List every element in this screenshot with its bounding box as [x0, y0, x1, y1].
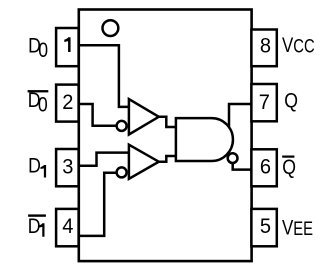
svg-text:7: 7 [259, 90, 270, 114]
wire /D1: pin 4 to buffer B inverting bubble [79, 173, 117, 236]
svg-text:8: 8 [260, 34, 271, 58]
buffer B triangle [129, 145, 159, 179]
wire /Q: gate bubble to pin 6 [233, 163, 252, 169]
wire D0: pin 1 to buffer A noninverting input [79, 45, 129, 107]
svg-text:6: 6 [260, 155, 271, 179]
wire D1: pin 3 to buffer B noninverting input [79, 153, 129, 166]
label /Q (pin 6) with overline [282, 156, 294, 158]
pin 6 box [251, 149, 276, 186]
pin 7 box [251, 84, 276, 121]
pin 2 box [56, 85, 79, 122]
svg-text:Q: Q [284, 90, 298, 113]
svg-text:3: 3 [62, 155, 73, 179]
pin 1 number [64, 37, 70, 52]
buffer A triangle [129, 99, 159, 134]
gate G1 AND shape [176, 118, 233, 161]
wire buffer A output to gate input 1 [159, 117, 176, 127]
svg-text:VCC: VCC [282, 33, 315, 58]
gate G1 complementary output bubble [228, 153, 238, 163]
svg-text:Q: Q [282, 157, 296, 180]
pin 5 box [251, 209, 276, 246]
buffer A input bubble [117, 121, 127, 131]
pin 8 box [251, 30, 276, 67]
IC body U1 [79, 10, 252, 262]
pin 1 indicator circle [103, 20, 119, 36]
label /D1 (pin 4) with overline [28, 214, 46, 216]
label /D0 (pin 2) with overline [28, 90, 49, 92]
svg-text:D: D [28, 216, 41, 239]
svg-text:2: 2 [62, 90, 73, 114]
buffer B input bubble [117, 167, 127, 177]
svg-text:D: D [28, 155, 41, 178]
pin 4 box [56, 209, 79, 246]
wire /D0: pin 2 to buffer A inverting bubble [79, 104, 117, 126]
wire Q: gate true output to pin 7 [229, 104, 252, 127]
wire buffer B output to gate input 2 [159, 156, 176, 162]
svg-text:5: 5 [260, 214, 271, 238]
pin 3 box [56, 149, 79, 186]
svg-text:VEE: VEE [282, 215, 313, 240]
pin 1 box [56, 28, 79, 66]
svg-text:4: 4 [62, 214, 73, 238]
